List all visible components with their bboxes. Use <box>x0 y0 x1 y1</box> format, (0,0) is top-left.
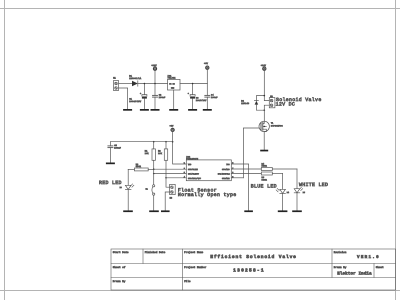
svg-text:RED LED: RED LED <box>99 180 122 186</box>
svg-text:78 05: 78 05 <box>169 82 174 85</box>
svg-text:+5V: +5V <box>204 62 209 65</box>
svg-text:Revision: Revision <box>334 251 347 254</box>
title block <box>111 249 396 290</box>
ground <box>106 163 115 165</box>
+5V supply symbol (logic) <box>171 128 174 131</box>
svg-text:Drawn By: Drawn By <box>113 280 126 283</box>
svg-text:+: + <box>188 92 189 95</box>
svg-text:330R: 330R <box>262 165 268 168</box>
svg-text:Normally Open type: Normally Open type <box>178 192 237 198</box>
svg-text:Elektor India: Elektor India <box>337 270 372 276</box>
svg-text:10uF/16V: 10uF/16V <box>196 99 207 102</box>
wire GP1 to R5 <box>231 173 261 175</box>
wire +12V down to K2 <box>264 70 269 100</box>
capacitor C5 <box>108 142 113 163</box>
resistor R4 <box>261 168 297 171</box>
wire T1 source to ground <box>263 132 265 150</box>
svg-text:File: File <box>184 280 191 283</box>
svg-text:VER1.0: VER1.0 <box>357 255 380 260</box>
svg-text:PIC12F675: PIC12F675 <box>186 158 199 161</box>
wire GP3 to K3 pin1 <box>166 178 170 187</box>
connector K2 <box>269 98 275 108</box>
wire GP3 row <box>166 177 186 179</box>
resistor R5 <box>261 172 282 175</box>
svg-text:Finished Date: Finished Date <box>145 251 166 254</box>
ground <box>151 109 160 111</box>
svg-text:GP1/ICSPCLK: GP1/ICSPCLK <box>218 172 231 175</box>
op-amp IC2 (PIC12F675 microcontroller) <box>186 160 231 181</box>
svg-text:+12V: +12V <box>151 64 157 67</box>
wire IC1 gnd pin <box>173 90 175 109</box>
svg-text:+12V: +12V <box>261 64 267 67</box>
svg-text:10k: 10k <box>158 152 163 155</box>
switch S1 <box>152 174 155 211</box>
resistor R2 <box>164 142 167 178</box>
svg-text:K3: K3 <box>170 196 173 199</box>
svg-text:S1: S1 <box>146 187 148 190</box>
ground <box>278 210 288 212</box>
svg-text:78L05Z: 78L05Z <box>168 77 177 80</box>
diode D2 (flyback) <box>254 96 264 111</box>
ground <box>203 109 212 111</box>
svg-text:4: 4 <box>184 175 185 178</box>
wire VSS to ground <box>231 164 248 210</box>
node junction on +12V rail <box>144 83 146 85</box>
wire D1 to IC1 <box>138 83 168 85</box>
svg-text:D4: D4 <box>287 191 289 194</box>
transistor T1 (MOSFET) <box>259 121 269 131</box>
wire +5V to rail <box>206 69 208 83</box>
ground <box>123 210 133 212</box>
svg-text:Start Date: Start Date <box>113 251 129 254</box>
wire K2 pin2 to MOSFET drain <box>264 105 269 110</box>
svg-text:+: + <box>140 92 141 95</box>
svg-text:3: 3 <box>184 171 185 174</box>
svg-text:330R: 330R <box>136 165 142 168</box>
wire IC1 out <box>180 83 207 85</box>
ground <box>169 109 178 111</box>
+12V supply symbol (solenoid branch) <box>263 67 266 70</box>
svg-text:Sheet of: Sheet of <box>113 266 126 269</box>
svg-text:100nF: 100nF <box>211 96 218 99</box>
svg-text:Efficient Solenoid Valve: Efficient Solenoid Valve <box>210 254 297 260</box>
capacitor C4 <box>205 84 210 109</box>
svg-text:1N4148: 1N4148 <box>241 102 250 105</box>
svg-text:130258-1: 130258-1 <box>233 268 265 274</box>
diode D1 <box>132 81 138 86</box>
resistor R3 <box>128 168 154 171</box>
voltage regulator IC1 <box>168 79 181 90</box>
svg-text:Project Number: Project Number <box>184 266 207 269</box>
svg-text:1N4007/1A: 1N4007/1A <box>129 77 142 80</box>
svg-text:Drawn By: Drawn By <box>334 266 347 269</box>
svg-text:100nF: 100nF <box>159 96 166 99</box>
+5V rail to R1 R2 C5 <box>110 141 172 143</box>
svg-text:GP2/AN2: GP2/AN2 <box>222 177 230 180</box>
svg-text:GP3/MCLR/VPP: GP3/MCLR/VPP <box>188 177 201 180</box>
svg-text:Sheet: Sheet <box>376 266 384 269</box>
svg-text:Project Name: Project Name <box>184 251 203 254</box>
wire K3 pin2 to ground <box>165 192 169 210</box>
svg-text:VDD: VDD <box>188 163 191 166</box>
wire +12V to rail <box>154 70 156 83</box>
svg-text:WHITE LED: WHITE LED <box>299 182 328 188</box>
ground <box>188 109 197 111</box>
svg-text:STP36NF06: STP36NF06 <box>271 125 284 128</box>
capacitor C2 <box>153 84 158 109</box>
svg-text:GND: GND <box>171 87 174 90</box>
connector K3 <box>170 184 176 194</box>
svg-text:D5: D5 <box>303 191 305 194</box>
svg-text:GP5/CLKIN: GP5/CLKIN <box>188 168 198 171</box>
wire K1 pin1 to D1 <box>119 83 132 85</box>
svg-text:12V DC: 12V DC <box>276 102 296 108</box>
wire R1 node to S1 <box>153 169 155 173</box>
connector K1 <box>113 81 118 91</box>
svg-text:10k: 10k <box>145 152 150 155</box>
+5V supply symbol (top) <box>206 66 209 69</box>
ground <box>149 210 159 212</box>
ground <box>292 210 302 212</box>
+12V supply symbol <box>153 67 156 70</box>
ground <box>260 150 268 152</box>
ground <box>244 210 253 212</box>
svg-text:GP4/CLKOUT: GP4/CLKOUT <box>188 172 200 175</box>
svg-text:GP0/AN0: GP0/AN0 <box>222 168 230 171</box>
svg-text:D3: D3 <box>120 186 122 189</box>
svg-text:VSS: VSS <box>226 163 229 166</box>
svg-text:K1: K1 <box>113 77 116 80</box>
wire +5V down to VDD <box>173 131 187 164</box>
wire T1 gate <box>243 128 259 178</box>
svg-text:100nF: 100nF <box>114 147 121 150</box>
ground <box>140 109 149 111</box>
wire GP4 row <box>154 173 187 175</box>
ground <box>161 210 170 212</box>
svg-text:330R: 330R <box>262 179 268 182</box>
LED D5 (white) <box>294 169 303 210</box>
capacitor C3 <box>188 84 195 109</box>
wire K1 pin2 to ground <box>119 88 128 109</box>
LED D3 (red) <box>125 169 133 210</box>
svg-text:BLUE LED: BLUE LED <box>251 183 277 189</box>
wire GP5 row <box>154 168 187 170</box>
svg-text:+5V: +5V <box>170 124 175 127</box>
capacitor C1 <box>140 84 147 109</box>
wire GP0 to R4 <box>231 168 261 170</box>
svg-text:100uF/25V: 100uF/25V <box>129 100 142 103</box>
resistor R1 <box>152 142 155 170</box>
svg-text:2: 2 <box>184 167 185 170</box>
wire GP2 row to gate riser <box>231 177 243 179</box>
LED D4 (blue) <box>276 174 285 211</box>
ground <box>123 109 132 111</box>
svg-text:1: 1 <box>184 162 185 165</box>
